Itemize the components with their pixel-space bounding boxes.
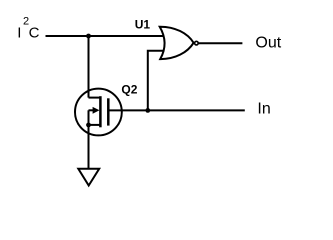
svg-text:I: I	[17, 25, 21, 42]
svg-text:C: C	[29, 25, 40, 42]
svg-text:Q2: Q2	[121, 82, 137, 96]
svg-text:U1: U1	[135, 17, 151, 31]
svg-text:In: In	[257, 101, 270, 118]
svg-text:Out: Out	[255, 35, 281, 52]
